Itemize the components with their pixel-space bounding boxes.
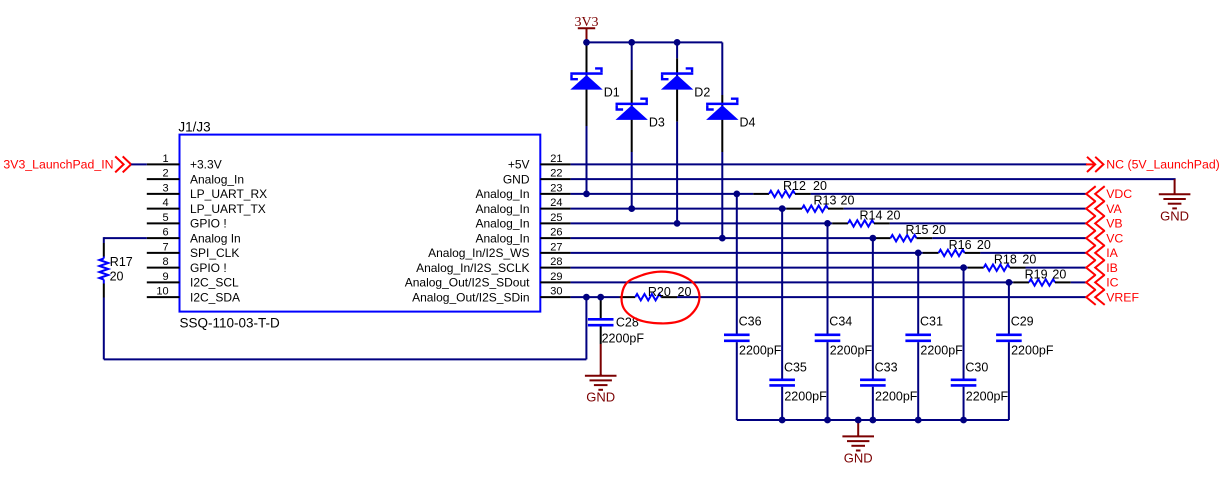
port IB chevrons <box>1086 260 1105 275</box>
svg-text:2200pF: 2200pF <box>739 344 782 358</box>
wire R18 right lead <box>1010 267 1026 269</box>
svg-text:R14: R14 <box>860 208 883 222</box>
wire R15 right lead <box>917 237 933 239</box>
wire pin26 net left <box>571 237 875 239</box>
wire pin27 net right <box>980 252 1086 254</box>
svg-text:20: 20 <box>977 238 991 252</box>
wire pin29 net right <box>1071 281 1086 283</box>
svg-text:2200pF: 2200pF <box>602 331 645 345</box>
svg-text:20: 20 <box>678 285 692 299</box>
junction pin26 / D4 <box>719 235 726 242</box>
wire ground bus <box>737 419 1009 421</box>
ground GND (bus) <box>842 420 874 451</box>
wire pin26 net right <box>932 237 1086 239</box>
wire R16 left lead <box>923 252 939 254</box>
resistor R19 <box>1029 279 1055 285</box>
svg-text:C31: C31 <box>920 315 943 329</box>
port 3V3_LaunchPad_IN chevrons <box>115 156 131 172</box>
svg-text:C33: C33 <box>875 361 898 375</box>
svg-text:C29: C29 <box>1011 315 1034 329</box>
port VC chevrons <box>1086 230 1105 245</box>
svg-text:J1/J3: J1/J3 <box>178 120 210 135</box>
wire R19 left lead <box>1013 281 1029 283</box>
pin 23 stub <box>540 193 570 195</box>
svg-text:2: 2 <box>162 168 168 180</box>
svg-text:VREF: VREF <box>1106 290 1139 304</box>
port VB chevrons <box>1086 216 1105 231</box>
junction bus / GND <box>855 417 862 424</box>
svg-text:20: 20 <box>110 270 124 284</box>
wire pin6 horizontal <box>104 237 147 239</box>
junction pin30 / C28 <box>597 294 604 301</box>
svg-text:10: 10 <box>156 286 168 298</box>
wire R19 right lead <box>1055 281 1071 283</box>
junction pin27 / C31 <box>915 250 922 257</box>
svg-text:GND: GND <box>844 450 873 465</box>
diode D3 <box>616 99 648 120</box>
pin 22 stub <box>540 178 570 180</box>
power port 3V3 bar <box>578 27 595 29</box>
junction pin25 / D2 <box>674 220 681 227</box>
port IC chevrons <box>1086 275 1105 290</box>
resistor R20 <box>635 294 661 300</box>
port VDC chevrons <box>1086 186 1105 201</box>
svg-text:6: 6 <box>162 227 168 239</box>
resistor R13 <box>802 205 828 211</box>
capacitor C36 <box>724 335 750 341</box>
wire R17 top lead <box>103 237 105 243</box>
svg-text:R12: R12 <box>783 179 806 193</box>
diode D4 <box>706 99 738 120</box>
svg-text:20: 20 <box>813 179 827 193</box>
pin 5 stub <box>147 222 180 224</box>
wire pin23 net left <box>571 193 754 195</box>
svg-text:Analog_In: Analog_In <box>475 187 529 201</box>
wire C31 vertical <box>917 253 919 334</box>
wire pin24 net right <box>844 208 1086 210</box>
svg-text:VDC: VDC <box>1106 187 1132 201</box>
svg-text:20: 20 <box>841 194 855 208</box>
pin 25 stub <box>540 222 570 224</box>
wire pin30 net left <box>571 296 620 298</box>
junction pin23 / C36 <box>733 191 740 198</box>
svg-text:GPIO !: GPIO ! <box>190 217 227 231</box>
ground GND (C28) <box>585 374 617 390</box>
svg-text:2200pF: 2200pF <box>920 344 963 358</box>
wire C35 vertical <box>781 209 783 379</box>
svg-text:I2C_SDA: I2C_SDA <box>190 290 240 304</box>
wire R13 left lead <box>786 208 802 210</box>
svg-text:2200pF: 2200pF <box>966 390 1009 404</box>
resistor R16 <box>939 250 965 256</box>
capacitor C30 <box>951 380 977 386</box>
svg-text:+3.3V: +3.3V <box>190 158 222 172</box>
junction pin24 / D3 <box>628 205 635 212</box>
capacitor C28 <box>588 319 614 325</box>
wire R20 left lead <box>619 296 635 298</box>
wire pin22 to GND <box>571 178 1176 180</box>
pin 10 stub <box>147 296 180 298</box>
svg-text:Analog_In: Analog_In <box>190 172 244 186</box>
svg-text:Analog In: Analog In <box>190 231 241 245</box>
svg-text:21: 21 <box>550 153 562 165</box>
wire pin1 to port <box>131 163 147 165</box>
diode D1 <box>570 68 602 89</box>
svg-text:+5V: +5V <box>508 158 530 172</box>
svg-text:8: 8 <box>162 256 168 268</box>
capacitor C29 <box>996 335 1022 341</box>
svg-text:2200pF: 2200pF <box>784 390 827 404</box>
svg-text:20: 20 <box>932 223 946 237</box>
svg-text:SSQ-110-03-T-D: SSQ-110-03-T-D <box>180 316 281 331</box>
pin 9 stub <box>147 281 180 283</box>
wire R12 left lead <box>753 193 769 195</box>
pin 29 stub <box>540 281 570 283</box>
svg-text:26: 26 <box>550 227 562 239</box>
ground GND (pin22) <box>1159 179 1191 208</box>
svg-text:GND: GND <box>586 390 615 405</box>
svg-text:C30: C30 <box>965 361 988 375</box>
svg-text:3: 3 <box>162 182 168 194</box>
svg-text:D4: D4 <box>740 116 756 130</box>
wire D2 anode/cathode leads <box>676 42 678 58</box>
annotation circle around R20 <box>622 272 700 324</box>
pin 30 stub <box>540 296 570 298</box>
svg-text:VB: VB <box>1106 217 1122 231</box>
wire C28 top lead <box>600 297 602 318</box>
wire 3V3 rail <box>587 41 723 43</box>
wire D1 anode/cathode leads <box>586 42 588 44</box>
svg-text:1: 1 <box>162 153 168 165</box>
port VA chevrons <box>1086 201 1105 216</box>
svg-text:Analog_In/I2S_WS: Analog_In/I2S_WS <box>428 246 529 260</box>
wire C33 vertical <box>872 238 874 378</box>
port VREF chevrons <box>1086 289 1105 304</box>
svg-text:GND: GND <box>503 172 530 186</box>
pin 21 stub <box>540 163 570 165</box>
pin 27 stub <box>540 252 570 254</box>
capacitor C31 <box>905 335 931 341</box>
wire R13 right lead <box>828 208 844 210</box>
svg-text:30: 30 <box>550 286 562 298</box>
svg-text:R19: R19 <box>1025 267 1048 281</box>
junction pin25 / C34 <box>824 220 831 227</box>
wire bottom loop vertical up to pin 30 net <box>585 297 587 359</box>
svg-text:3V3_LaunchPad_IN: 3V3_LaunchPad_IN <box>3 158 113 172</box>
pin 28 stub <box>540 267 570 269</box>
capacitor C35 <box>769 380 795 386</box>
pin 24 stub <box>540 208 570 210</box>
port NC chevrons <box>1086 157 1103 172</box>
svg-text:VA: VA <box>1106 202 1122 216</box>
svg-text:I2C_SCL: I2C_SCL <box>190 276 239 290</box>
svg-text:Analog_In/I2S_SCLK: Analog_In/I2S_SCLK <box>416 261 529 275</box>
resistor R14 <box>848 220 874 226</box>
svg-text:R17: R17 <box>110 255 133 269</box>
pin 7 stub <box>147 252 180 254</box>
svg-text:IA: IA <box>1106 246 1118 260</box>
svg-text:R20: R20 <box>648 285 671 299</box>
wire C28 bottom lead <box>600 327 602 345</box>
wire R14 left lead <box>832 222 848 224</box>
svg-text:C36: C36 <box>739 315 762 329</box>
svg-text:Analog_In: Analog_In <box>475 217 529 231</box>
svg-text:D2: D2 <box>694 85 710 99</box>
wire R20 right lead <box>661 296 677 298</box>
wire pin21 to NC <box>571 163 1087 165</box>
pin 6 stub <box>147 237 180 239</box>
svg-text:27: 27 <box>550 241 562 253</box>
wire C29 vertical <box>1008 282 1010 333</box>
pin 2 stub <box>147 178 180 180</box>
svg-text:R13: R13 <box>814 194 837 208</box>
svg-text:Analog_Out/I2S_SDout: Analog_Out/I2S_SDout <box>405 276 530 290</box>
port IA chevrons <box>1086 245 1105 260</box>
wire R17 bottom lead <box>103 284 105 298</box>
svg-text:23: 23 <box>550 182 562 194</box>
wire C36 vertical <box>736 194 738 334</box>
svg-text:9: 9 <box>162 271 168 283</box>
svg-text:25: 25 <box>550 212 562 224</box>
svg-text:R16: R16 <box>949 238 972 252</box>
svg-text:Analog_Out/I2S_SDin: Analog_Out/I2S_SDin <box>412 290 529 304</box>
wire pin25 net right <box>890 222 1086 224</box>
svg-text:2200pF: 2200pF <box>830 344 873 358</box>
capacitor C33 <box>860 380 886 386</box>
wire C34 vertical <box>827 223 829 333</box>
svg-text:5: 5 <box>162 212 168 224</box>
svg-text:Analog_In: Analog_In <box>475 231 529 245</box>
svg-text:LP_UART_RX: LP_UART_RX <box>190 187 267 201</box>
svg-text:VC: VC <box>1106 231 1123 245</box>
svg-text:IB: IB <box>1106 261 1118 275</box>
wire C30 vertical <box>963 268 965 379</box>
svg-text:NC (5V_LaunchPad): NC (5V_LaunchPad) <box>1106 158 1219 172</box>
wire R12 right lead <box>795 193 811 195</box>
wire D4 anode/cathode leads <box>721 42 723 95</box>
wire bottom loop horizontal <box>104 358 587 360</box>
wire R16 right lead <box>965 252 981 254</box>
svg-text:24: 24 <box>550 197 562 209</box>
wire R18 left lead <box>968 267 984 269</box>
wire D3 anode/cathode leads <box>631 42 633 70</box>
svg-text:20: 20 <box>887 208 901 222</box>
svg-text:20: 20 <box>1052 267 1066 281</box>
svg-text:SPI_CLK: SPI_CLK <box>190 246 239 260</box>
wire pin25 net left <box>571 222 833 224</box>
pin 4 stub <box>147 208 180 210</box>
junction pin29 / C29 <box>1006 279 1013 286</box>
svg-text:7: 7 <box>162 241 168 253</box>
wire pin28 net right <box>1026 267 1086 269</box>
svg-text:IC: IC <box>1106 276 1118 290</box>
svg-text:R18: R18 <box>994 253 1017 267</box>
wire pin23 net right <box>811 193 1086 195</box>
svg-text:GPIO !: GPIO ! <box>190 261 227 275</box>
diode D2 <box>661 68 693 89</box>
junction rail / D3 <box>628 39 635 46</box>
pin 8 stub <box>147 267 180 269</box>
junction pin28 / C30 <box>960 264 967 271</box>
resistor R15 <box>891 235 917 241</box>
svg-text:Analog_In: Analog_In <box>475 202 529 216</box>
svg-text:C34: C34 <box>829 315 852 329</box>
wire pin29 net left <box>571 281 1014 283</box>
junction rail / D2 <box>674 39 681 46</box>
svg-text:22: 22 <box>550 168 562 180</box>
pin 3 stub <box>147 193 180 195</box>
wire R15 left lead <box>875 237 891 239</box>
junction pin26 / C33 <box>869 235 876 242</box>
junction bus / C33 <box>869 417 876 424</box>
junction pin23 / D1 <box>583 191 590 198</box>
junction pin30 / R17 loop <box>583 294 590 301</box>
svg-text:D3: D3 <box>649 116 665 130</box>
junction bus / C34 <box>824 417 831 424</box>
svg-text:2200pF: 2200pF <box>875 390 918 404</box>
svg-text:20: 20 <box>1022 253 1036 267</box>
svg-text:2200pF: 2200pF <box>1011 344 1054 358</box>
wire R14 right lead <box>874 222 890 224</box>
svg-text:28: 28 <box>550 256 562 268</box>
junction bus / C31 <box>915 417 922 424</box>
wire pin27 net left <box>571 252 923 254</box>
svg-text:R15: R15 <box>906 223 929 237</box>
capacitor C34 <box>815 335 841 341</box>
svg-text:LP_UART_TX: LP_UART_TX <box>190 202 266 216</box>
wire pin24 net left <box>571 208 787 210</box>
resistor R18 <box>984 264 1010 270</box>
svg-text:C35: C35 <box>784 361 807 375</box>
resistor R17 <box>103 257 105 259</box>
wire pin30 net right <box>677 296 1086 298</box>
svg-text:D1: D1 <box>604 85 620 99</box>
svg-text:GND: GND <box>1160 208 1189 223</box>
wire pin28 net left <box>571 267 968 269</box>
pin 26 stub <box>540 237 570 239</box>
junction bus / C30 <box>960 417 967 424</box>
svg-text:4: 4 <box>162 197 168 209</box>
pin 1 stub <box>147 163 180 165</box>
junction 3V3 rail / D1 <box>583 39 590 46</box>
resistor R12 <box>769 191 795 197</box>
connector J1/J3 body <box>180 135 541 312</box>
junction pin24 / C35 <box>779 205 786 212</box>
svg-text:29: 29 <box>550 271 562 283</box>
junction bus / C35 <box>779 417 786 424</box>
